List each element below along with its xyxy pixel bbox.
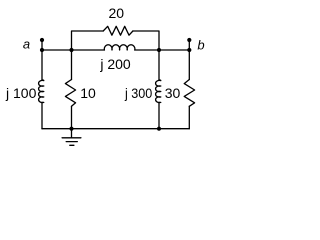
resistor R1 20 <box>103 26 133 35</box>
inductor L2 j200 <box>104 45 135 50</box>
svg-text:30: 30 <box>165 85 181 101</box>
junction dot branch j300 top <box>157 48 161 52</box>
node a junction dot <box>40 48 44 52</box>
ground <box>62 129 81 146</box>
wire main horizontal rail right segment <box>135 49 190 51</box>
node b terminal dot <box>187 38 191 42</box>
svg-text:10: 10 <box>80 85 96 101</box>
resistor R2 10 <box>65 80 75 107</box>
inductor L3 j300 <box>156 80 161 103</box>
junction dot branch 10 top <box>69 48 73 52</box>
junction dot ground <box>69 127 73 131</box>
wire top loop left riser <box>72 31 104 50</box>
wire branch j300 lower <box>158 102 160 128</box>
svg-text:b: b <box>197 38 204 53</box>
node a terminal dot <box>40 38 44 42</box>
wire branch 10 lower <box>71 106 73 128</box>
wire top loop right riser <box>133 31 159 50</box>
junction dot branch j300 bottom <box>157 127 161 131</box>
resistor R3 30 <box>184 80 194 107</box>
svg-text:j 300: j 300 <box>124 85 152 101</box>
svg-text:20: 20 <box>109 5 125 21</box>
wire terminal b stub <box>188 40 190 50</box>
node b junction dot <box>187 48 191 52</box>
wire branch j300 upper <box>158 50 160 80</box>
wire main horizontal rail a-b left segment <box>42 49 104 51</box>
svg-text:j 200: j 200 <box>99 56 131 72</box>
wire branch 10 upper <box>71 50 73 80</box>
svg-text:j 100: j 100 <box>5 85 37 101</box>
wire left branch upper <box>41 50 43 80</box>
wire left branch lower <box>41 102 43 128</box>
wire branch 30 lower <box>188 106 190 128</box>
bottom rail <box>42 128 189 130</box>
wire terminal a stub <box>41 40 43 50</box>
wire branch 30 upper <box>188 50 190 80</box>
inductor L1 j100 <box>39 80 44 103</box>
svg-text:a: a <box>23 37 30 52</box>
